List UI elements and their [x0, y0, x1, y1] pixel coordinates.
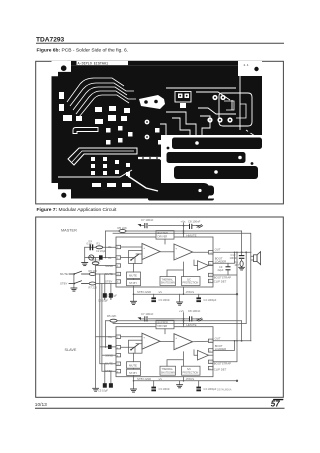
svg-text:0.56: 0.56	[87, 242, 93, 246]
wire switches common	[73, 274, 75, 288]
bottom-left corner notch	[52, 183, 72, 199]
svg-text:C2 22µF: C2 22µF	[96, 249, 106, 253]
svg-text:+Vs: +Vs	[181, 219, 186, 223]
capacitor C8 slave	[190, 317, 192, 321]
wire C9 branch	[227, 263, 229, 275]
wire bootstrap loop slave	[213, 341, 237, 362]
svg-text:-Vs: -Vs	[158, 377, 163, 381]
black slab bottom tab	[161, 183, 209, 199]
ground slave bus	[93, 388, 99, 391]
wires below master IC	[134, 287, 237, 302]
ground below caps	[105, 298, 111, 300]
master pins right	[208, 251, 213, 283]
speaker LS1	[254, 252, 261, 265]
capacitor C6	[109, 293, 113, 298]
svg-text:R6 10K: R6 10K	[89, 269, 98, 273]
PCB bottom tab	[148, 195, 214, 201]
capacitor C7 slave	[138, 317, 148, 321]
wire slave sgnd	[102, 354, 116, 356]
svg-text:C3 100nF: C3 100nF	[159, 387, 171, 391]
bottom-right corner notch	[246, 189, 262, 199]
svg-text:R1: R1	[97, 242, 101, 246]
wire -Vs rail below	[134, 293, 237, 295]
wires below slave IC	[134, 377, 237, 389]
svg-text:MUTE: MUTE	[60, 272, 68, 276]
stby block master	[127, 280, 141, 286]
svg-text:C4 1000µF: C4 1000µF	[204, 387, 217, 391]
svg-text:STBY-GND: STBY-GND	[137, 290, 151, 294]
op-amp A1 master input	[142, 244, 160, 260]
wire bus stby down	[102, 284, 116, 372]
footer rule	[35, 407, 285, 409]
junction dots slave top	[183, 320, 185, 322]
wire +Vs drop	[183, 223, 185, 237]
svg-text:MUTE: MUTE	[129, 274, 137, 278]
svg-text:Figure 6b: PCB - Solder Side o: Figure 6b: PCB - Solder Side of the fig.…	[37, 48, 129, 54]
white connector blob	[139, 95, 165, 109]
svg-text:+: +	[175, 336, 177, 340]
sc protection block slave	[182, 366, 201, 375]
svg-text:R2 22K: R2 22K	[92, 259, 101, 263]
wire stby-gnd drop slave	[133, 377, 135, 389]
svg-text:C8 100nF: C8 100nF	[188, 309, 201, 313]
resistor R5 slave	[110, 319, 117, 322]
svg-text:IN+: IN+	[108, 335, 113, 339]
wire R2	[95, 258, 97, 262]
svg-text:+Vs: +Vs	[179, 309, 184, 313]
svg-text:CLIP DET: CLIP DET	[214, 368, 227, 372]
mounting hole top-right	[254, 67, 258, 71]
resistor R6	[89, 273, 96, 276]
svg-text:100nF: 100nF	[230, 256, 238, 260]
switch box master	[129, 251, 143, 264]
header rule	[36, 42, 284, 44]
resistor R1	[96, 246, 103, 249]
top-right corner notch	[238, 61, 262, 76]
slab white dots	[195, 141, 242, 192]
wire center gnd	[179, 294, 181, 302]
capacitor C5 slave	[103, 383, 107, 388]
wire rail1	[106, 230, 242, 232]
svg-text:C3 100nF: C3 100nF	[159, 298, 171, 302]
wire speaker stubs	[251, 256, 254, 260]
black slab B	[167, 152, 246, 163]
capacitor C10 zobel	[239, 256, 243, 261]
scattered pads center	[106, 126, 175, 151]
figure 6b frame	[36, 61, 284, 204]
wire input row IN+	[85, 246, 116, 248]
internal wires slave	[121, 329, 213, 377]
svg-text:A-DIPLO EISTA01: A-DIPLO EISTA01	[78, 62, 109, 66]
svg-text:ST-BY: ST-BY	[129, 281, 137, 285]
internal wires master	[121, 239, 213, 287]
white pad circles upper-right	[207, 95, 232, 123]
pin numbers slave	[117, 337, 213, 374]
IC U1 master box	[116, 237, 213, 287]
lower-right white field	[161, 135, 262, 199]
white circle pads center-left	[145, 120, 150, 125]
PCB ground plane main mass	[52, 65, 263, 198]
PCB silkscreen strip	[77, 61, 129, 65]
label SGND wire	[96, 265, 116, 267]
svg-text:IN-: IN-	[108, 346, 112, 350]
wire vert feedback	[105, 231, 107, 258]
wire bus sgnd down	[95, 266, 97, 389]
svg-text:-: -	[144, 344, 145, 348]
black dots on white	[167, 129, 254, 165]
figure 7 caption	[37, 207, 118, 213]
capacitor C4 master	[196, 297, 201, 302]
big angled band lower-left	[68, 148, 137, 165]
svg-text:C4 1000µF: C4 1000µF	[204, 298, 217, 302]
svg-text:STBY: STBY	[60, 282, 67, 286]
wire OUT master	[213, 251, 251, 253]
boxed pad pair	[175, 92, 191, 109]
stby block slave	[127, 369, 141, 375]
wire -Vs pin drop slave	[183, 377, 185, 381]
white pads left column	[59, 92, 130, 124]
black bar far bottom	[148, 195, 208, 201]
master right wires	[213, 231, 254, 341]
svg-text:DRIVER: DRIVER	[158, 324, 168, 328]
capacitor C8	[190, 224, 192, 228]
wire cap stubs slave	[154, 381, 199, 387]
svg-text:DRIVER: DRIVER	[158, 234, 168, 238]
svg-text:SHUTDOWN: SHUTDOWN	[161, 371, 175, 374]
wire slave cap stubs	[105, 364, 111, 384]
slave pins left	[116, 335, 121, 373]
ground stby slave	[131, 389, 137, 392]
signal source V1	[89, 255, 94, 260]
white traces upper-right	[166, 76, 258, 138]
capacitor C6 slave	[109, 383, 113, 388]
wire stby-gnd drop	[133, 287, 135, 301]
thermal shutdown block master	[160, 277, 176, 286]
wire rail2	[113, 232, 251, 234]
white hook trace	[73, 128, 98, 134]
white diagonal channel bottom-center	[128, 176, 158, 191]
op-amp A2 master power	[174, 244, 193, 260]
svg-text:-PWVs: -PWVs	[186, 377, 195, 381]
svg-text:SGND: SGND	[105, 264, 113, 268]
wire -Vs pin drop	[183, 287, 185, 294]
white channel bottom-left	[58, 170, 132, 177]
wires mute stby down to slave	[96, 266, 116, 389]
ground center slave	[177, 385, 183, 388]
staircase traces center	[160, 112, 210, 142]
svg-text:CLIP DET: CLIP DET	[214, 279, 227, 283]
IC U2 slave box	[116, 327, 213, 377]
svg-text:IN-: IN-	[108, 256, 112, 260]
PCB top copper bar	[67, 61, 240, 65]
junction dot slave IN- feedback	[105, 346, 107, 348]
wire feedback C7	[149, 225, 190, 227]
wire OUT slave	[213, 340, 251, 342]
svg-text:MASTER: MASTER	[61, 228, 77, 232]
svg-text:PROTECTION: PROTECTION	[183, 282, 199, 285]
svg-text:HMUTE: HMUTE	[187, 233, 197, 237]
wire slave rail1 riser	[241, 321, 243, 341]
sc protection block master	[182, 277, 201, 286]
capacitor C2 polarized	[99, 255, 103, 259]
svg-text:C6 10µF: C6 10µF	[107, 294, 117, 298]
mute block master	[127, 272, 141, 279]
wire input left vert	[84, 247, 86, 262]
wire cap stubs	[154, 294, 199, 297]
black blob bottom	[196, 186, 214, 196]
svg-text:C5 10µF: C5 10µF	[98, 389, 108, 393]
header title TDA7293	[36, 36, 65, 43]
svg-text:SGND: SGND	[105, 354, 113, 358]
svg-text:+: +	[143, 336, 145, 340]
resistor R2	[92, 262, 99, 265]
svg-text:4R7: 4R7	[235, 263, 240, 267]
master top rail wires	[106, 223, 251, 258]
svg-text:2.1: 2.1	[244, 64, 249, 67]
pin labels slave	[105, 323, 231, 373]
ground switches	[71, 288, 77, 291]
resistor R5	[119, 230, 126, 233]
svg-text:-Vs: -Vs	[158, 290, 163, 294]
capacitor C2 slave	[108, 345, 112, 349]
mounting hole top-left	[61, 65, 67, 71]
ground after C8 slave	[197, 318, 203, 321]
switch S1	[69, 271, 89, 274]
svg-text:D97AU806A: D97AU806A	[217, 388, 232, 392]
svg-text:+: +	[143, 246, 145, 250]
mute block slave	[127, 362, 141, 369]
switch box slave	[129, 340, 143, 353]
op-amp A5 slave power	[174, 334, 193, 350]
ground center master	[177, 302, 183, 305]
svg-text:OUT: OUT	[215, 248, 221, 252]
mounting hole bottom-left	[61, 193, 66, 198]
ground zobel	[239, 267, 245, 271]
svg-text:R7 22K: R7 22K	[89, 286, 98, 290]
op-amp A4 slave input	[142, 333, 160, 349]
mounting hole bottom-right	[253, 193, 258, 198]
svg-text:BUFFER: BUFFER	[158, 321, 169, 325]
thermal shutdown block slave	[160, 366, 176, 375]
junction dots master top	[183, 230, 185, 232]
ST logo	[271, 399, 284, 409]
svg-text:SHUTDOWN: SHUTDOWN	[161, 282, 175, 285]
svg-text:MUTE: MUTE	[129, 363, 137, 367]
figure 7 frame	[36, 217, 284, 397]
wire center gnd slave	[179, 381, 181, 385]
capacitor C9 bootstrap	[226, 267, 230, 270]
svg-text:STBY-GND: STBY-GND	[137, 377, 151, 381]
wire boot loop slave	[213, 341, 235, 351]
black slab C	[174, 166, 258, 179]
capacitor C3 slave	[151, 387, 156, 392]
capacitor C5	[103, 293, 107, 298]
svg-text:10/13: 10/13	[35, 402, 47, 408]
switch S2	[69, 281, 89, 284]
svg-text:OUT: OUT	[215, 337, 221, 341]
capacitor C3 master	[151, 297, 156, 302]
PCB artwork group	[52, 61, 263, 201]
resistor R8 zobel	[240, 261, 243, 267]
wire slave in-	[100, 346, 116, 348]
pin labels master	[105, 233, 231, 283]
black slab A	[172, 138, 262, 150]
pad columns lower-left	[91, 157, 130, 176]
junction dot IN- feedback	[105, 257, 107, 259]
wire stby to pin	[97, 283, 117, 285]
svg-text:Figure 7: Modular Application: Figure 7: Modular Application Circuit	[37, 207, 118, 213]
buffer driver box U2	[156, 320, 174, 329]
figure 6b caption	[37, 48, 129, 54]
buffer driver box U1	[156, 231, 174, 240]
svg-text:57: 57	[271, 400, 280, 409]
svg-text:R5 22K: R5 22K	[118, 226, 127, 230]
wire slave rail2 riser	[245, 252, 247, 323]
pin numbers master	[117, 247, 213, 284]
ground stby master	[131, 301, 137, 304]
white dotted band center-bottom	[138, 158, 166, 163]
top-left corner notch	[52, 61, 72, 76]
junction dots out	[241, 251, 243, 253]
wire rail1 feedback drop	[241, 231, 243, 252]
capacitor C4 slave	[196, 387, 201, 392]
capacitor C7	[138, 224, 148, 228]
svg-text:STBY: STBY	[105, 279, 112, 283]
slave top rail wires	[106, 313, 247, 348]
white trace arcs upper-left	[67, 78, 136, 117]
schematic	[60, 218, 261, 393]
wire rail2 bridge drop	[250, 233, 252, 340]
svg-text:TDA7293: TDA7293	[36, 36, 65, 43]
ground input	[82, 263, 88, 266]
resistor R7	[89, 282, 96, 285]
wire input row IN-	[85, 257, 116, 259]
svg-text:ST-BY: ST-BY	[129, 371, 137, 375]
wire zobel stub	[241, 252, 243, 255]
slave pins right	[208, 339, 213, 370]
wire slave in+	[96, 336, 116, 338]
ground after C8	[197, 225, 203, 228]
wire bootstrap loop	[213, 252, 237, 340]
slave right wires	[213, 293, 251, 381]
svg-text:22µF: 22µF	[218, 268, 224, 272]
svg-text:PROTECTION: PROTECTION	[183, 371, 199, 374]
svg-text:R5 22K: R5 22K	[107, 314, 116, 318]
op-amp A3 master buffer	[198, 261, 209, 271]
svg-text:C7 100nF: C7 100nF	[141, 312, 154, 316]
svg-text:STBY: STBY	[105, 369, 112, 373]
white pads bottom row	[92, 183, 131, 187]
svg-text:C8 100nF: C8 100nF	[188, 219, 201, 223]
svg-text:SLAVE: SLAVE	[65, 348, 77, 352]
wire bus mute down	[100, 274, 116, 364]
master pins left	[116, 245, 121, 283]
wire -Vs rail below slave	[134, 380, 237, 382]
svg-text:-PWVs: -PWVs	[186, 290, 195, 294]
svg-text:-: -	[176, 345, 177, 349]
white ring trace upper-right	[219, 93, 252, 126]
svg-text:-: -	[176, 255, 177, 259]
wire C8 branch	[192, 225, 197, 227]
wire mute to pin	[97, 273, 117, 275]
svg-text:+: +	[175, 246, 177, 250]
op-amp A6 slave buffer	[198, 350, 209, 360]
wire boot loop master	[213, 252, 235, 263]
capacitor C1	[90, 245, 92, 250]
svg-text:MUTE: MUTE	[105, 362, 113, 366]
svg-text:C7 100nF: C7 100nF	[141, 218, 154, 222]
wire cap stubs	[104, 274, 106, 293]
svg-text:-: -	[144, 255, 145, 259]
svg-text:C5 10µF: C5 10µF	[98, 299, 108, 303]
